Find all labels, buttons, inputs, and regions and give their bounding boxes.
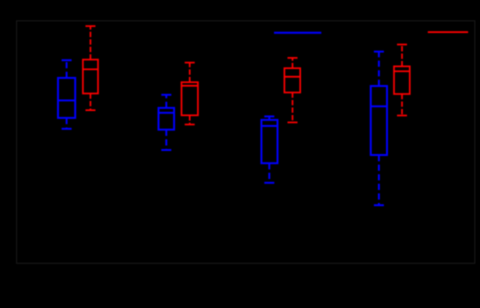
group 4 blue box [371,86,387,155]
group 4 blue whisker top [374,52,384,86]
group 1 blue whisker top [62,60,72,78]
group 3 blue median [261,125,277,127]
group 1 red box [83,60,98,94]
group 3 red median [284,76,300,78]
group 1 red whisker bottom [85,94,95,111]
group 3 red whisker top [288,58,298,68]
group 3 blue box [261,120,277,163]
legend blue line [274,32,321,34]
group 2 red box [182,82,198,115]
group 2 blue median [159,112,175,114]
group 1 red whisker top [85,26,95,60]
group 2 blue whisker bottom [161,130,171,150]
group 4 red median [394,70,410,72]
group 3 red whisker bottom [288,93,298,123]
legend red line [428,31,468,33]
group 1 blue whisker bottom [62,118,72,129]
group 4 red box [394,66,410,94]
group 1 blue box [58,78,75,118]
group 3 red box [284,68,300,92]
group 1 blue median [58,99,75,101]
group 2 red median [182,85,198,87]
group 4 blue whisker bottom [374,155,384,205]
group 2 blue whisker top [161,95,171,108]
group 2 red whisker top [185,63,195,83]
group 4 red whisker bottom [397,94,407,116]
axes frame [17,21,475,263]
group 3 blue whisker top [264,116,274,120]
group 2 red whisker bottom [185,115,195,124]
group 3 blue whisker bottom [264,163,274,183]
group 1 red median [83,68,98,70]
group 4 red whisker top [397,45,407,67]
group 2 blue box [159,108,175,130]
group 4 blue median [371,105,387,107]
